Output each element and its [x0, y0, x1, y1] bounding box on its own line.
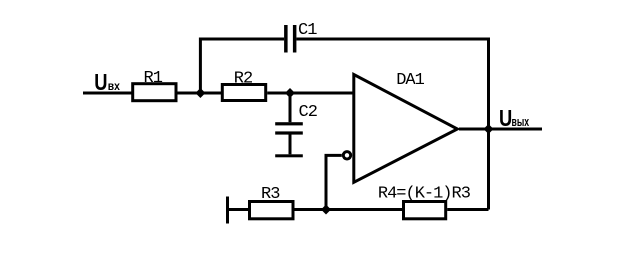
svg-text:DA1: DA1: [396, 71, 424, 90]
svg-text:C2: C2: [299, 103, 317, 122]
svg-text:вх: вх: [108, 80, 120, 93]
svg-text:вых: вых: [512, 116, 530, 130]
svg-text:R1: R1: [144, 69, 163, 88]
svg-text:C1: C1: [298, 21, 317, 40]
svg-text:R2: R2: [234, 70, 252, 89]
svg-text:R4=(K-1)R3: R4=(K-1)R3: [378, 184, 471, 203]
svg-text:R3: R3: [261, 185, 280, 204]
svg-text:U: U: [94, 70, 107, 96]
svg-text:U: U: [499, 106, 512, 132]
